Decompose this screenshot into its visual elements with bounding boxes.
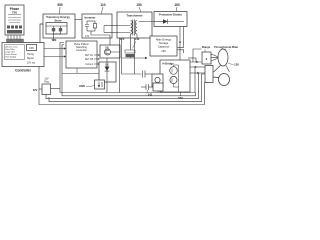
svg-text:12V out: 12V out (27, 62, 35, 65)
12V regulator box (42, 84, 51, 95)
inverter box (82, 14, 112, 38)
svg-text:Protection Diodes: Protection Diodes (159, 13, 183, 17)
flange box (202, 52, 211, 64)
wires flange to electrode (211, 54, 219, 61)
svg-text:174: 174 (120, 37, 125, 41)
diode D2 (105, 58, 110, 93)
transitory inner box (46, 23, 67, 35)
h-bridge box (160, 60, 190, 92)
svg-text:CPU: CPU (29, 47, 34, 50)
electrode top ellipse (218, 49, 228, 66)
wire protection down right (183, 27, 185, 48)
wires phase pins (8, 35, 20, 40)
neutral box on bus (95, 80, 105, 89)
power source internal rows (8, 18, 21, 23)
inverter capacitor leg (85, 21, 117, 45)
capacitor 120 plates (178, 47, 185, 50)
svg-text:Current: Current (85, 63, 93, 66)
transitory switch S1 (46, 20, 82, 42)
wire to electrode bottom (213, 76, 219, 79)
electrode bottom ellipse (219, 74, 230, 86)
transformer box (117, 12, 152, 38)
svg-text:12V: 12V (33, 88, 38, 92)
wire pulse area to diode box (62, 72, 99, 74)
controller box (2, 43, 44, 67)
wires inverter to transformer (104, 25, 117, 27)
protection diodes box (154, 12, 187, 27)
pulse pattern switching controller box (66, 41, 97, 68)
wire arrow controller out 1 (44, 47, 66, 57)
connector blocks (7, 39, 24, 43)
bus wire 2 (62, 45, 196, 96)
svg-text:Storage: Storage (159, 41, 169, 45)
svg-text:FET On: FET On (85, 55, 94, 57)
svg-text:H-Bridge: H-Bridge (162, 62, 174, 66)
fet box (100, 45, 120, 58)
transformer secondary coil (135, 21, 137, 35)
svg-text:520: 520 (52, 38, 57, 42)
diode D1 (154, 21, 163, 23)
wire transitory to inverter (75, 19, 82, 21)
svg-text:Store: Store (54, 18, 62, 22)
svg-text:Through-Hole Plate: Through-Hole Plate (214, 45, 238, 49)
svg-text:560: 560 (105, 64, 110, 67)
bus wire 4 (49, 74, 205, 102)
svg-text:500: 500 (178, 96, 183, 100)
svg-text:110: 110 (100, 3, 105, 7)
svg-text:Signal: Signal (27, 58, 34, 60)
transistor Q2 (170, 76, 177, 83)
wire to bridge arrow (122, 57, 146, 59)
transitory energy storage box (43, 14, 75, 38)
controller text block (6, 46, 19, 59)
wire controller to transitory (40, 24, 43, 43)
inverter switch leg (94, 21, 96, 24)
wire arrow controller out 2 (44, 56, 65, 58)
pointer 130 (228, 64, 234, 65)
svg-text:FET Off: FET Off (85, 59, 93, 61)
title underline (8, 14, 21, 16)
transformer tap wire 2 (121, 38, 123, 74)
transistor Q3 small box (152, 74, 163, 87)
wire transitory down (53, 34, 55, 41)
svg-text:Controller: Controller (15, 69, 31, 73)
h-bridge out arrows (190, 66, 205, 74)
capacitor 140 top wire (130, 38, 132, 50)
svg-text:Timing: Timing (27, 54, 35, 56)
diode box (99, 62, 116, 82)
capacitor C3 on bus (141, 84, 158, 93)
main energy storage capacitor box (150, 36, 177, 56)
arrows pulse out (94, 54, 100, 65)
svg-text:Inverter: Inverter (84, 16, 96, 20)
wire tap to cap2 (134, 38, 136, 74)
svg-text:160: 160 (174, 3, 180, 7)
transformer core (132, 20, 134, 36)
svg-text:550: 550 (57, 3, 63, 7)
svg-text:720: 720 (12, 11, 17, 15)
power source box (phase 720) (5, 5, 24, 35)
svg-text:Capacitor: Capacitor (158, 45, 170, 49)
wire bridge bottom (180, 92, 182, 96)
bus wire 3 (46, 73, 199, 99)
transformer tap wire 1 (120, 38, 153, 93)
svg-text:120: 120 (161, 49, 166, 53)
transformer bottom stubs (130, 36, 132, 39)
svg-text:542: 542 (148, 94, 153, 97)
svg-text:150: 150 (136, 3, 142, 7)
capacitor C2 plates (143, 71, 146, 78)
spark gap lines (214, 66, 230, 73)
cpu sub-box (27, 45, 37, 51)
through-hole plate rect (205, 66, 213, 83)
small box on bus (153, 83, 163, 91)
svg-text:Main Energy: Main Energy (156, 38, 172, 42)
svg-text:Flange: Flange (202, 45, 211, 49)
svg-text:130: 130 (234, 63, 239, 67)
wire protection down left with arrow (178, 27, 203, 64)
svg-text:Transformer: Transformer (126, 14, 143, 18)
svg-text:Reg: Reg (44, 81, 49, 84)
wire secondary to protection (139, 21, 154, 23)
transitory switch S2 (60, 26, 62, 28)
svg-text:140: 140 (135, 37, 140, 41)
svg-text:172: 172 (85, 35, 90, 38)
transformer primary coil (117, 20, 154, 39)
fet transistor circle (105, 49, 111, 55)
svg-text:Controller: Controller (76, 49, 87, 52)
bus wire 1 (39, 43, 207, 105)
controller inner sub-box (5, 45, 25, 60)
wire stub to flange top (193, 49, 202, 62)
wire cap to flange line (180, 61, 202, 63)
svg-text:GND: GND (79, 84, 85, 88)
svg-text:Pwr Supply: Pwr Supply (6, 56, 17, 59)
bus wire 5 (39, 67, 207, 105)
power source terminal squares (7, 26, 22, 34)
transistor Q1 (170, 67, 178, 75)
